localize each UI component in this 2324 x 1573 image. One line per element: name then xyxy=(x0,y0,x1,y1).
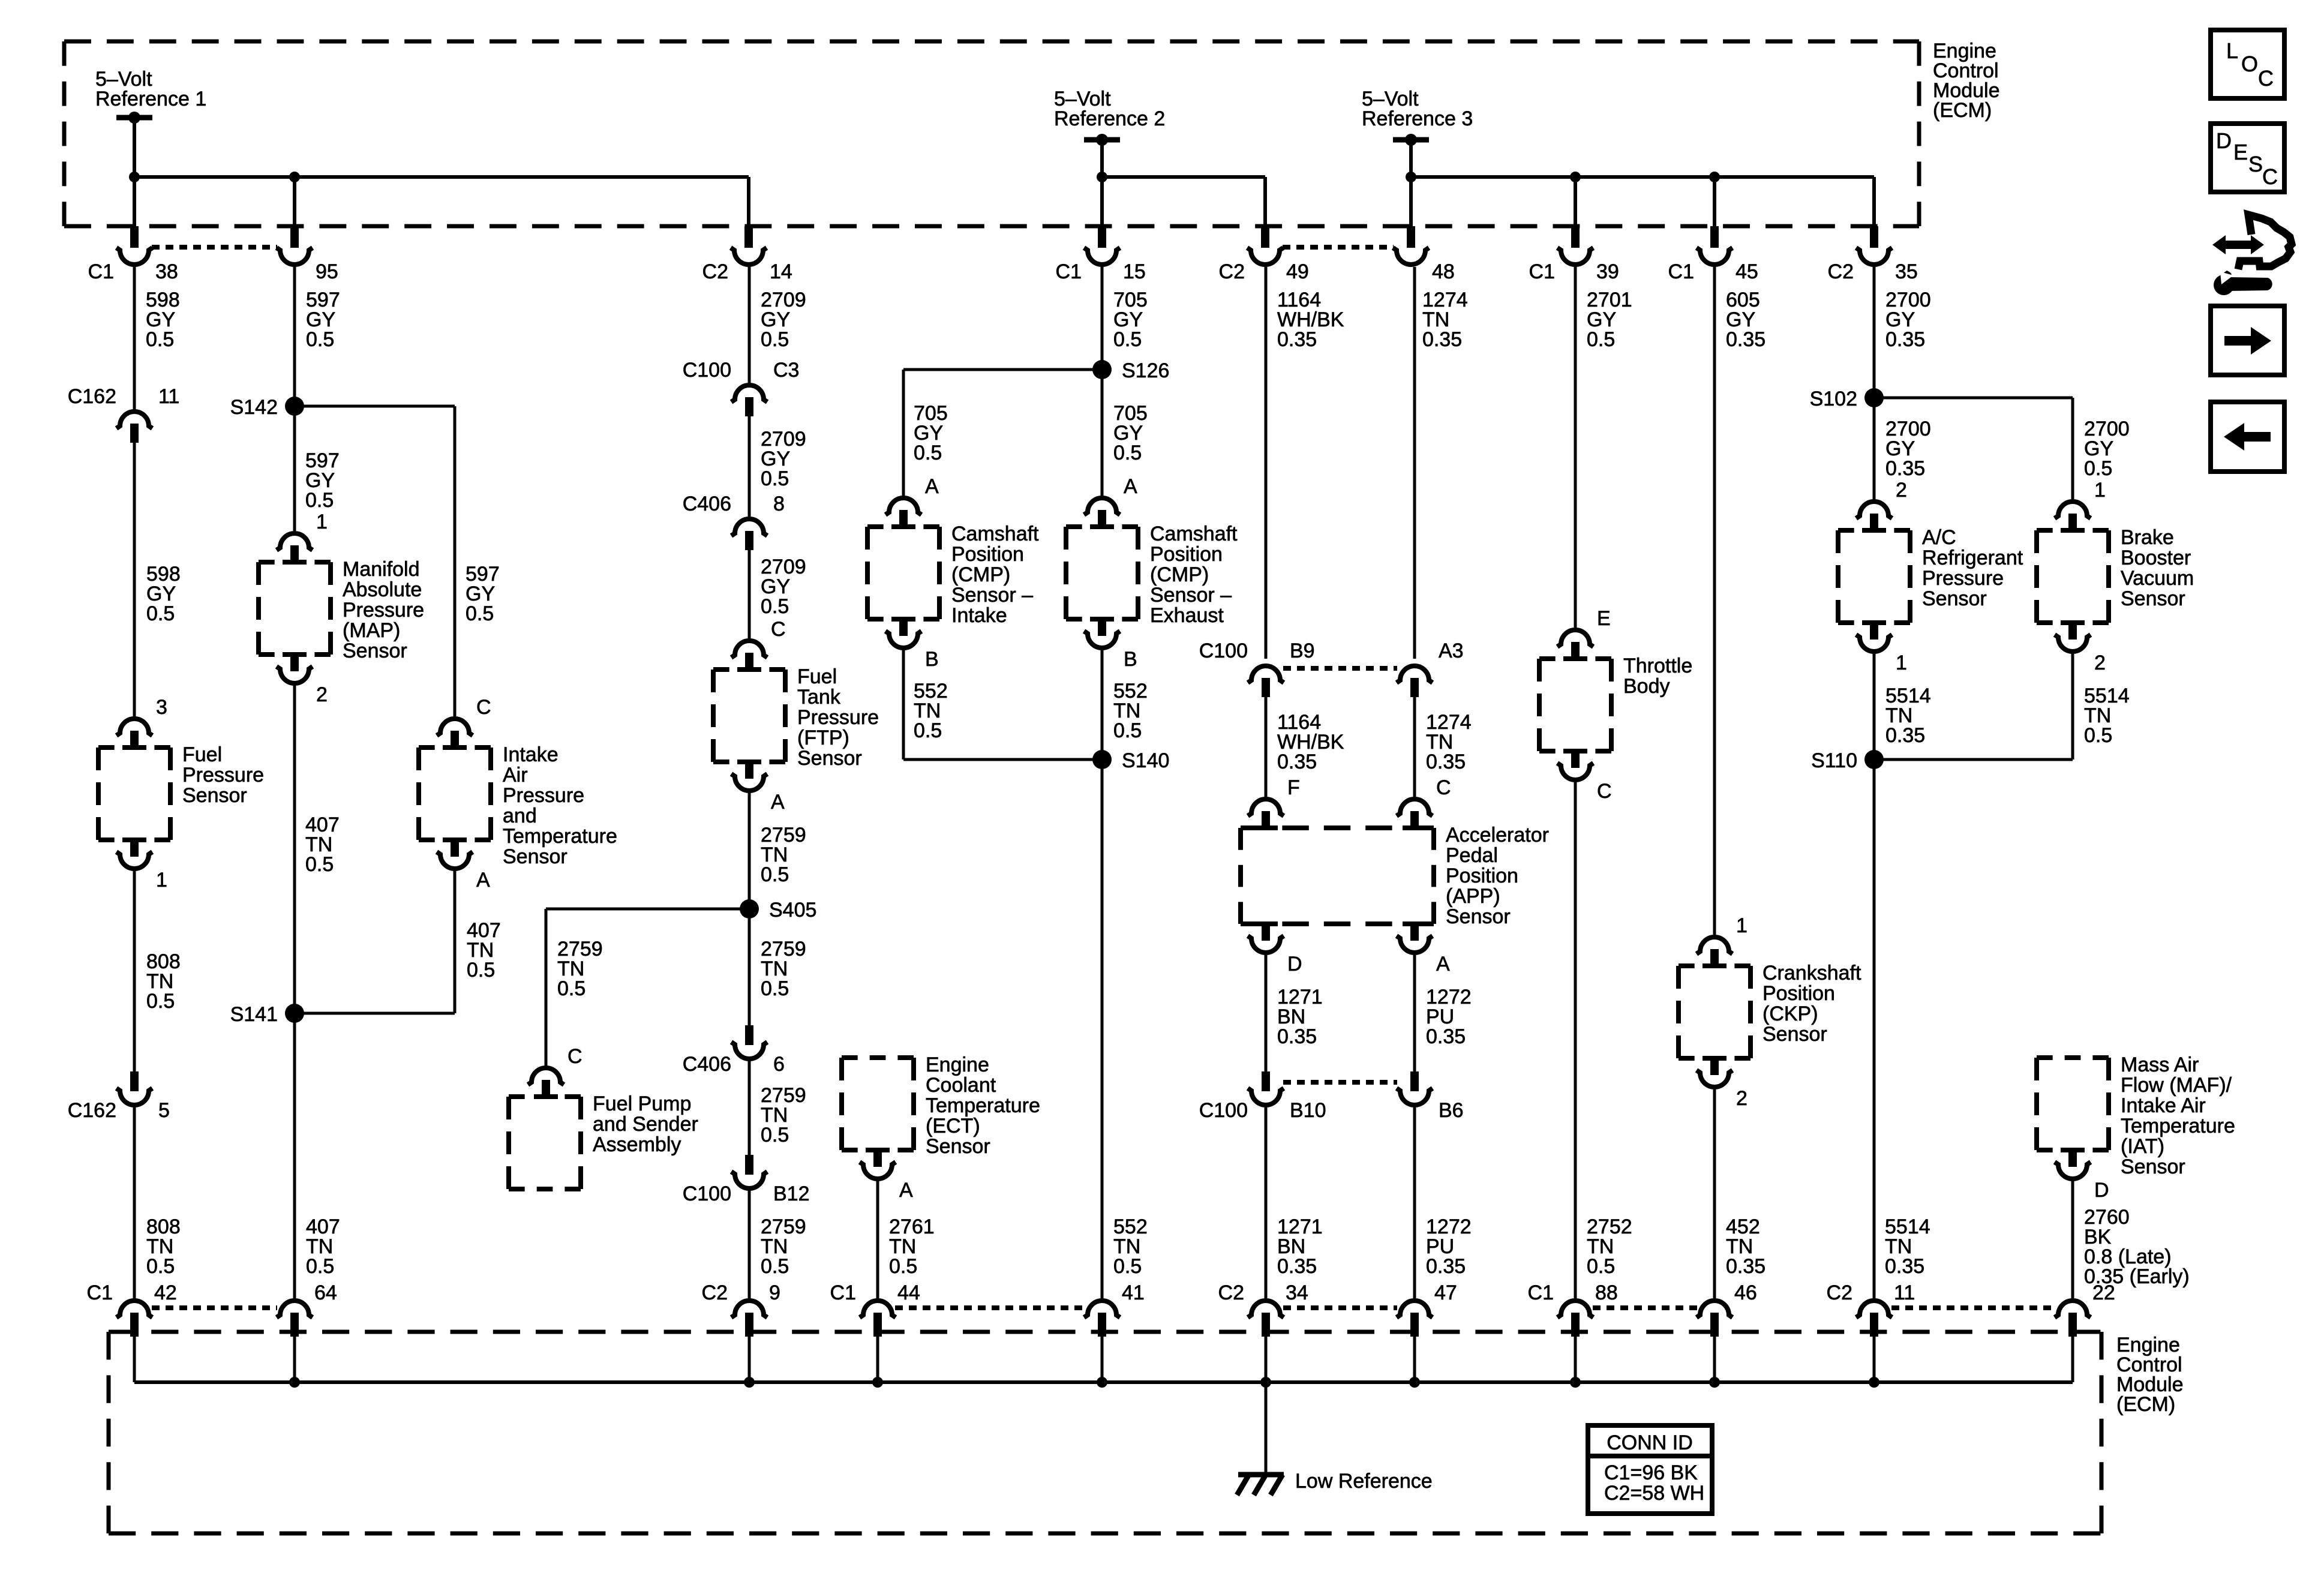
wire 705 GY to CMP exhaust pin A xyxy=(1101,370,1104,496)
node junction ref3-39 xyxy=(1570,172,1581,182)
connector ECM pin 47 (bottom row) xyxy=(1397,1301,1433,1317)
node junction ref1-38 xyxy=(129,172,140,182)
wire 2752 TN to ECM pin 88 xyxy=(1574,782,1577,1298)
wire 2761 TN to ECM pin 44 xyxy=(876,1181,879,1298)
dotted connector line C1 38-95 xyxy=(152,245,277,250)
svg-text:48: 48 xyxy=(1432,260,1455,283)
svg-text:49: 49 xyxy=(1286,260,1309,283)
svg-text:C2: C2 xyxy=(1827,1281,1852,1304)
splice S140 xyxy=(1092,750,1112,769)
wire 2759 TN from FTP pin A xyxy=(748,793,751,1025)
connector ECM C1 pin 38 (top row) xyxy=(130,226,139,248)
sensor pin A xyxy=(1403,921,1427,926)
wire 2759 TN xyxy=(748,1061,751,1155)
wire 5514 TN from brake booster pin 2 xyxy=(2071,654,2074,760)
wire drop to ECM pin xyxy=(1263,177,1267,228)
svg-text:C: C xyxy=(771,618,786,641)
sensor pin 1 xyxy=(1862,620,1886,625)
svg-text:A: A xyxy=(1436,953,1450,975)
sensor pin B xyxy=(891,617,915,622)
svg-text:39: 39 xyxy=(1596,260,1619,283)
wire 705 GY to CMP intake pin A xyxy=(902,370,905,496)
component Fuel Pump and Sender Assembly xyxy=(509,1094,581,1099)
svg-text:64: 64 xyxy=(314,1281,337,1304)
wire 452 TN to ECM pin 46 xyxy=(1713,1089,1716,1298)
wire 2759 TN to fuel pump xyxy=(545,909,548,1067)
wire to low reference bus xyxy=(293,1337,296,1382)
svg-text:C2=58 WH: C2=58 WH xyxy=(1604,1482,1704,1505)
svg-text:C1: C1 xyxy=(88,260,114,283)
wire 705 GY from pin 15 xyxy=(1101,267,1104,370)
connector ECM C1 pin 88 (bottom row) xyxy=(1557,1301,1593,1317)
dotted connector line C100 B10-B6 xyxy=(1283,1080,1397,1085)
svg-text:11: 11 xyxy=(1894,1281,1915,1304)
sensor pin C xyxy=(437,719,473,736)
sensor pin 2 xyxy=(283,652,307,657)
wire drop to ECM pin xyxy=(1872,177,1876,228)
connector ECM C1 pin 42 (bottom row) xyxy=(116,1301,152,1317)
svg-text:A: A xyxy=(899,1179,913,1202)
connector ECM pin 22 (bottom row) xyxy=(2055,1301,2091,1317)
svg-text:1: 1 xyxy=(156,869,167,891)
wire to low reference bus xyxy=(1873,1337,1876,1382)
wire to low reference bus xyxy=(2071,1337,2074,1382)
splice S110 xyxy=(1864,750,1884,769)
wire to low reference bus xyxy=(1101,1337,1104,1382)
wire drop to ECM pin xyxy=(747,177,750,228)
splice S405 xyxy=(740,899,759,918)
svg-text:E: E xyxy=(2233,140,2248,164)
sensor pin 2 xyxy=(1856,502,1892,518)
svg-text:S142: S142 xyxy=(230,396,278,419)
svg-text:C: C xyxy=(1436,776,1451,799)
dotted connector line C1 88-46 xyxy=(1593,1305,1697,1310)
svg-text:14: 14 xyxy=(770,260,792,283)
wire 407 TN from MAP pin 2 xyxy=(293,686,296,1013)
node junction low reference xyxy=(1409,1377,1420,1388)
ECM bottom dashed box xyxy=(109,1330,2101,1334)
component Throttle Body xyxy=(1539,656,1611,661)
wire to low reference bus xyxy=(1574,1337,1577,1382)
svg-text:88: 88 xyxy=(1595,1281,1618,1304)
wire 1274 TN to APP pin C xyxy=(1413,697,1416,797)
wire drop to ECM pin xyxy=(293,177,296,228)
wire to low reference bus xyxy=(748,1337,751,1382)
node junction ref1-95 xyxy=(289,172,300,182)
wire 407 TN from intake sensor pin A xyxy=(454,871,457,1013)
wire 552 TN from CMP exhaust to ECM pin 41 xyxy=(1101,650,1104,1298)
svg-text:A: A xyxy=(771,791,785,813)
connector ECM C1 pin 39 (top row) xyxy=(1571,226,1580,248)
node junction low reference xyxy=(1709,1377,1720,1388)
sensor pin A xyxy=(443,837,467,842)
sensor Mass Air Flow (MAF)/IAT xyxy=(2037,1055,2109,1060)
wire branch S141 to intake air sensor xyxy=(295,1012,455,1015)
svg-text:S140: S140 xyxy=(1122,749,1169,772)
wire 808 TN xyxy=(133,871,136,1071)
wire 2701 GY from pin 39 xyxy=(1574,267,1577,628)
sensor pin 1 xyxy=(1697,937,1733,954)
node junction low reference xyxy=(289,1377,300,1388)
connector ECM pin 41 (bottom row) xyxy=(1084,1301,1120,1317)
wire drop to ECM pin xyxy=(1713,177,1716,228)
node junction low reference xyxy=(872,1377,883,1388)
svg-text:11: 11 xyxy=(158,385,179,408)
svg-text:L: L xyxy=(2226,38,2238,63)
svg-text:C: C xyxy=(568,1045,582,1068)
wire drop to ECM pin xyxy=(1409,177,1413,228)
svg-text:CONN ID: CONN ID xyxy=(1607,1431,1693,1454)
wire drop to ECM pin xyxy=(1574,177,1577,228)
sensor Engine Coolant Temperature (ECT) xyxy=(842,1055,914,1060)
svg-text:S: S xyxy=(2248,152,2263,176)
wire 597 GY to MAP sensor xyxy=(293,406,296,531)
wire 1271 BN from APP pin D xyxy=(1265,955,1268,1071)
connector ECM C2 pin 11 (bottom row) xyxy=(1856,1301,1892,1317)
svg-text:S102: S102 xyxy=(1810,388,1857,410)
inline connector C100 pin C3 xyxy=(731,385,767,402)
connector ECM C2 pin 34 (bottom row) xyxy=(1248,1301,1284,1317)
inline connector C100 pin B12 xyxy=(745,1155,753,1175)
svg-text:A: A xyxy=(925,475,939,498)
sensor Intake Air Pressure and Temperature xyxy=(419,745,491,750)
sensor pin 2 xyxy=(1703,1056,1727,1061)
svg-text:C2: C2 xyxy=(1218,1281,1244,1304)
node junction low reference xyxy=(1869,1377,1879,1388)
wire to low reference bus xyxy=(133,1337,136,1382)
connector ECM C1 pin 45 (top row) xyxy=(1710,226,1719,248)
inline connector pin A3 xyxy=(1397,666,1433,683)
svg-text:Low Reference: Low Reference xyxy=(1295,1470,1433,1493)
svg-text:3: 3 xyxy=(156,696,167,719)
sensor pin A xyxy=(866,1148,890,1152)
svg-text:B6: B6 xyxy=(1439,1099,1464,1122)
icon back arrow box xyxy=(2211,402,2284,472)
sensor pin 2 xyxy=(2061,620,2085,625)
svg-text:45: 45 xyxy=(1736,260,1758,283)
svg-text:1: 1 xyxy=(1736,914,1747,937)
wire 2709 GY xyxy=(748,416,751,517)
connector ECM C1 pin 15 (top row) xyxy=(1098,226,1106,248)
svg-text:2: 2 xyxy=(2094,652,2106,674)
svg-text:6: 6 xyxy=(773,1053,785,1076)
svg-text:D: D xyxy=(2094,1179,2109,1202)
wire 5V reference 1 bus xyxy=(134,175,749,179)
svg-text:D: D xyxy=(1287,953,1302,975)
sensor pin C xyxy=(1397,799,1433,816)
wire branch S142 to intake air sensor xyxy=(295,405,455,408)
wire 552 TN from CMP intake pin B xyxy=(902,650,905,760)
sensor A/C Refrigerant Pressure xyxy=(1838,528,1910,533)
dotted connector line C1 42-64 xyxy=(152,1305,277,1310)
svg-text:C2: C2 xyxy=(1219,260,1245,283)
svg-text:B: B xyxy=(925,648,939,671)
wire drop to ECM pin xyxy=(133,177,136,228)
wire branch S405 to fuel pump xyxy=(546,908,749,911)
sensor Fuel Pressure Sensor xyxy=(98,745,170,750)
sensor pin A xyxy=(737,760,761,764)
svg-text:C100: C100 xyxy=(1199,640,1248,662)
sensor pin A xyxy=(885,498,921,515)
wire 5V reference 2 bus xyxy=(1102,175,1265,179)
wire 407 TN to ECM pin 64 xyxy=(293,1013,296,1298)
sensor pin D xyxy=(1254,921,1278,926)
svg-text:46: 46 xyxy=(1734,1281,1757,1304)
svg-text:2: 2 xyxy=(1736,1087,1747,1110)
svg-text:B: B xyxy=(1124,648,1137,671)
dotted connector line C2 34-47 xyxy=(1283,1305,1397,1310)
splice S102 xyxy=(1864,388,1884,407)
wire 598 GY to fuel pressure sensor xyxy=(133,443,136,716)
svg-text:C1: C1 xyxy=(1668,260,1694,283)
sensor Accelerator Pedal Position (APP) xyxy=(1241,825,1434,830)
sensor pin F xyxy=(1248,799,1284,816)
svg-text:C2: C2 xyxy=(702,1281,728,1304)
svg-text:22: 22 xyxy=(2092,1281,2115,1304)
wire drop to ECM pin xyxy=(1100,177,1104,228)
wire 808 TN to ECM pin 42 xyxy=(133,1107,136,1298)
svg-text:C100: C100 xyxy=(683,1182,731,1205)
svg-text:C1: C1 xyxy=(1528,1281,1554,1304)
connector ECM pin 95 (top row) xyxy=(290,226,299,248)
svg-text:EngineControlModule(ECM): EngineControlModule(ECM) xyxy=(1933,40,2000,122)
svg-text:C1: C1 xyxy=(1056,260,1082,283)
svg-text:C1=96 BK: C1=96 BK xyxy=(1604,1461,1698,1484)
wire 2709 GY to FTP sensor xyxy=(748,550,751,638)
sensor pin D xyxy=(2061,1148,2085,1152)
connector ECM pin 46 (bottom row) xyxy=(1697,1301,1733,1317)
inline connector C406 pin 6 xyxy=(745,1025,753,1045)
wire 1272 PU to ECM pin 47 xyxy=(1413,1107,1416,1298)
svg-text:O: O xyxy=(2241,52,2258,76)
icon LOC box xyxy=(2211,30,2284,98)
sensor pin C xyxy=(1563,749,1587,754)
connector ECM C2 pin 49 (top row) xyxy=(1261,226,1269,248)
sensor pin A xyxy=(1084,498,1120,515)
svg-text:S141: S141 xyxy=(230,1003,278,1026)
node junction low reference xyxy=(1260,1377,1271,1388)
sensor pin 1 xyxy=(122,837,146,842)
connector ECM pin 48 (top row) xyxy=(1407,226,1415,248)
node junction low reference xyxy=(1097,1377,1107,1388)
wire 2700 GY from pin 35 xyxy=(1873,267,1876,398)
svg-text:2: 2 xyxy=(1896,479,1907,502)
splice S141 xyxy=(285,1004,304,1023)
svg-text:41: 41 xyxy=(1122,1281,1145,1304)
svg-text:C162: C162 xyxy=(68,385,116,408)
inline connector C162 pin 5 xyxy=(130,1071,139,1091)
wire 1271 BN to ECM pin 34 xyxy=(1265,1107,1268,1298)
wire 597 GY to intake air sensor pin C xyxy=(454,406,457,716)
svg-text:38: 38 xyxy=(155,260,178,283)
wire to low reference bus xyxy=(1413,1337,1416,1382)
wire low reference bus xyxy=(134,1380,2073,1384)
svg-text:C1: C1 xyxy=(1529,260,1555,283)
svg-text:47: 47 xyxy=(1434,1281,1457,1304)
svg-text:A: A xyxy=(1124,475,1137,498)
svg-text:42: 42 xyxy=(154,1281,177,1304)
icon DESC box xyxy=(2211,124,2284,192)
node junction ref3-48 xyxy=(1406,172,1416,182)
wire 5514 TN to ECM pin 11 xyxy=(1873,760,1876,1298)
wire branch CMP intake to S140 xyxy=(903,758,1102,761)
sensor pin 1 xyxy=(277,533,313,550)
svg-text:34: 34 xyxy=(1286,1281,1308,1304)
inline connector C100 pin B10 xyxy=(1262,1071,1270,1091)
svg-text:1: 1 xyxy=(2094,479,2106,502)
splice S142 xyxy=(285,397,304,416)
svg-text:C406: C406 xyxy=(683,493,731,515)
svg-text:C1: C1 xyxy=(87,1281,113,1304)
node junction low reference xyxy=(744,1377,755,1388)
sensor pin 3 xyxy=(116,719,152,736)
sensor Brake Booster Vacuum xyxy=(2037,528,2109,533)
sensor Camshaft Position (CMP) Intake xyxy=(867,524,939,529)
sensor pin 1 xyxy=(2055,502,2091,518)
table CONN ID xyxy=(1588,1425,1712,1514)
svg-text:35: 35 xyxy=(1895,260,1918,283)
sensor Camshaft Position (CMP) Exhaust xyxy=(1066,524,1138,529)
svg-text:C: C xyxy=(2258,66,2274,91)
svg-text:A3: A3 xyxy=(1439,640,1464,662)
svg-text:B10: B10 xyxy=(1290,1099,1326,1122)
inline connector C100 pin B9 xyxy=(1248,666,1284,683)
wire 2709 GY from pin 14 xyxy=(748,267,751,383)
svg-text:B12: B12 xyxy=(773,1182,810,1205)
ECM top dashed box xyxy=(64,40,1919,44)
svg-text:S110: S110 xyxy=(1811,749,1857,772)
connector ECM C1 pin 44 (bottom row) xyxy=(860,1301,896,1317)
svg-text:C: C xyxy=(1597,780,1612,803)
node junction ref2-15 xyxy=(1097,172,1107,182)
svg-text:S126: S126 xyxy=(1122,359,1169,382)
ground Low Reference xyxy=(1265,1382,1268,1473)
sensor pin C xyxy=(528,1068,564,1085)
sensor Crankshaft Position (CKP) xyxy=(1679,963,1750,968)
svg-text:C: C xyxy=(476,696,491,719)
svg-text:C162: C162 xyxy=(68,1099,116,1122)
wire branch S126 to CMP intake xyxy=(903,368,1102,371)
wire 5V reference 3 bus xyxy=(1411,175,1874,179)
svg-text:2: 2 xyxy=(316,683,328,706)
svg-text:44: 44 xyxy=(897,1281,920,1304)
wire 2700 GY to A/C sensor pin 2 xyxy=(1873,398,1876,499)
wire 605 GY from pin 45 xyxy=(1713,267,1716,935)
inline connector C406 pin 8 xyxy=(731,519,767,536)
sensor pin C xyxy=(731,641,767,658)
svg-text:9: 9 xyxy=(769,1281,780,1304)
wire branch S102 to brake booster sensor xyxy=(1874,397,2073,400)
svg-text:C100: C100 xyxy=(683,359,731,382)
wire 5514 TN from A/C pin 1 xyxy=(1873,654,1876,760)
sensor pin B xyxy=(1090,617,1114,622)
connector ECM pin 64 (bottom row) xyxy=(277,1301,313,1317)
svg-text:C1: C1 xyxy=(830,1281,856,1304)
icon part locator with wrench xyxy=(2212,235,2264,254)
node junction ref3-45 xyxy=(1709,172,1720,182)
svg-text:C406: C406 xyxy=(683,1053,731,1076)
svg-text:F: F xyxy=(1287,776,1300,799)
connector ECM C2 pin 35 (top row) xyxy=(1870,226,1878,248)
svg-text:95: 95 xyxy=(316,260,338,283)
svg-text:5: 5 xyxy=(158,1099,170,1122)
inline connector pin B6 xyxy=(1410,1071,1419,1091)
wire 598 GY from pin 38 xyxy=(133,267,136,409)
svg-text:8: 8 xyxy=(773,493,785,515)
svg-text:C3: C3 xyxy=(773,359,799,382)
wire 1164 WH/BK to APP pin F xyxy=(1265,697,1268,797)
wire 1274 TN from pin 48 xyxy=(1413,267,1416,659)
svg-text:EngineControlModule(ECM): EngineControlModule(ECM) xyxy=(2116,1334,2184,1416)
wire 1272 PU from APP pin A xyxy=(1413,955,1416,1071)
wire 2700 GY to brake booster pin 1 xyxy=(2071,398,2074,499)
svg-text:D: D xyxy=(2216,128,2232,153)
wire 1164 WH/BK from pin 49 xyxy=(1265,267,1268,659)
svg-text:S405: S405 xyxy=(769,899,816,921)
node junction low reference xyxy=(1570,1377,1581,1388)
wire 2759 TN to ECM pin 9 xyxy=(748,1191,751,1298)
svg-text:C100: C100 xyxy=(1199,1099,1248,1122)
svg-text:C2: C2 xyxy=(1828,260,1854,283)
svg-text:15: 15 xyxy=(1123,260,1146,283)
icon forward arrow box xyxy=(2211,306,2284,375)
sensor Manifold Absolute Pressure (MAP) xyxy=(259,560,331,565)
inline connector C162 pin 11 xyxy=(116,412,152,428)
svg-text:C2: C2 xyxy=(702,260,728,283)
connector ECM C2 pin 9 (bottom row) xyxy=(731,1301,767,1317)
svg-text:C: C xyxy=(2262,164,2278,189)
wire to low reference bus xyxy=(1265,1337,1268,1382)
wire 2760 BK to ECM pin 22 xyxy=(2071,1181,2074,1298)
wire to low reference bus xyxy=(1713,1337,1716,1382)
sensor Fuel Tank Pressure (FTP) xyxy=(713,667,785,672)
dotted connector line C2 11-22 xyxy=(1891,1305,2055,1310)
wire branch brake booster to S110 xyxy=(1874,758,2073,761)
svg-text:1: 1 xyxy=(316,511,328,533)
connector ECM C2 pin 14 (top row) xyxy=(744,226,753,248)
wire 597 GY from pin 95 xyxy=(293,267,296,406)
dotted connector line C100 B9-A3 xyxy=(1283,666,1397,671)
svg-text:B9: B9 xyxy=(1290,640,1315,662)
sensor pin E xyxy=(1557,630,1593,647)
svg-text:1: 1 xyxy=(1896,652,1907,674)
svg-text:E: E xyxy=(1597,607,1611,630)
dotted connector line C1 44-41 xyxy=(895,1305,1085,1310)
splice S126 xyxy=(1092,360,1112,379)
wire to low reference bus xyxy=(876,1337,879,1382)
svg-text:A: A xyxy=(476,869,490,891)
dotted connector line C2 49-48 xyxy=(1283,245,1394,250)
